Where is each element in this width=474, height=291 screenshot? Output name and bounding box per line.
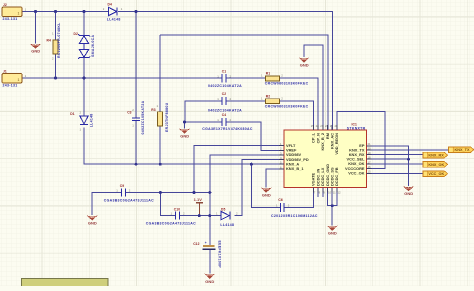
wire KNX_A long row y164.2 from D1 bottom to IC bbox=[84, 127, 284, 164]
wire R3 bottom to KNX_A row bbox=[159, 126, 161, 164]
svg-text:VDD_REGN: VDD_REGN bbox=[334, 133, 339, 155]
svg-text:J2: J2 bbox=[3, 3, 7, 7]
capacitor C6 bbox=[280, 203, 284, 212]
node row1 GND tap bbox=[34, 10, 37, 13]
svg-text:24: 24 bbox=[316, 124, 320, 128]
port flag KNX_RX bbox=[423, 152, 448, 158]
wire R3 hang from row3 bbox=[159, 35, 161, 112]
node VCC_SEL EP gnd tap bbox=[407, 158, 410, 161]
wire net KNX- row2 from J1 through R4/D2 bottoms to C1 bbox=[22, 77, 222, 79]
capacitor C12 polarized bbox=[193, 241, 221, 269]
node row1 D2 tap bbox=[83, 10, 86, 13]
wire 1.1V row C10 right to D5 anode bbox=[180, 215, 221, 217]
node DCDC gnd merge bbox=[331, 204, 334, 207]
wire KNX_TX pin to flag bbox=[367, 149, 449, 151]
svg-text:243-131: 243-131 bbox=[3, 17, 18, 21]
node C4 GND tap bbox=[183, 121, 186, 124]
IC pin stubs bbox=[279, 125, 371, 192]
svg-text:D5: D5 bbox=[221, 207, 225, 211]
node KNX_A R3 tap bbox=[159, 163, 162, 166]
IC IC1 STKNX body bbox=[284, 122, 367, 187]
svg-text:C4: C4 bbox=[222, 113, 226, 117]
svg-text:C1: C1 bbox=[222, 69, 226, 73]
svg-text:0402ZC104KAT2A: 0402ZC104KAT2A bbox=[208, 108, 242, 112]
svg-text:STKNXTR: STKNXTR bbox=[347, 126, 366, 130]
svg-text:R1: R1 bbox=[266, 71, 270, 75]
wire VDD98V_PD pin to vertical x242 down to D5 cathode bbox=[234, 160, 284, 216]
IC top pin names vertical bbox=[311, 132, 340, 154]
svg-text:GND: GND bbox=[88, 220, 97, 225]
svg-text:CRCW0603103K0FKEC: CRCW0603103K0FKEC bbox=[265, 81, 309, 85]
wire R2 right to IC top pin, corner x313 bbox=[280, 101, 314, 130]
svg-text:CGA3B3C0G2A473J111AC: CGA3B3C0G2A473J111AC bbox=[104, 199, 154, 203]
wire 1.1V power flag stem bbox=[198, 203, 200, 216]
wire VCC_OK pin to flag bbox=[367, 172, 424, 174]
capacitor C4 bbox=[222, 118, 226, 126]
node 1.1V flag tap bbox=[198, 214, 201, 217]
wire VFLT pin to vertical x194 down to C9 row bbox=[194, 146, 284, 193]
wire DCDC_IN stub bbox=[317, 188, 319, 198]
connector J1 bbox=[2, 69, 27, 87]
ground symbol GND6 bbox=[327, 226, 338, 236]
IC right pin names bbox=[345, 143, 365, 176]
wire C9 left leg to GND5 bbox=[92, 193, 121, 216]
wire C6 left from KNX_A junction x251.4 bbox=[251, 164, 280, 207]
port flag VCC_OK bbox=[423, 171, 448, 177]
svg-text:1: 1 bbox=[18, 12, 20, 16]
wire R4 bottom to row2 bbox=[55, 54, 57, 78]
power flag 1.1V bbox=[194, 197, 203, 203]
wire DCDC_GND / SS / FB merge to GND6 bbox=[328, 188, 337, 226]
TVS diode D2 bbox=[78, 34, 90, 59]
ground symbol GND2 bbox=[299, 57, 310, 67]
wire GND2 stem run y45 to IC top pin, corner x322.7 bbox=[304, 45, 323, 130]
wire EP pin to GND8 drop x408.5 bbox=[367, 146, 409, 186]
wire C12 top from 1.1V row bbox=[209, 216, 211, 245]
ground symbol GND7 bbox=[204, 274, 215, 285]
capacitor C3 bbox=[132, 118, 140, 121]
capacitor C1 bbox=[222, 74, 226, 82]
svg-text:KNX_RX: KNX_RX bbox=[428, 154, 444, 158]
wire C3 bottom to KNX_A row bbox=[135, 121, 137, 164]
svg-text:VCC_OK: VCC_OK bbox=[348, 171, 364, 176]
title block edge bottom left bbox=[22, 279, 109, 288]
wire C10 left leg from C9 junction x160.4 bbox=[160, 193, 175, 216]
wire D1 top from row2 bbox=[83, 78, 85, 116]
svg-text:CGA3E1X7R1V474K080AC: CGA3E1X7R1V474K080AC bbox=[202, 127, 253, 131]
svg-text:RC1206FR-0748KL: RC1206FR-0748KL bbox=[57, 22, 61, 58]
svg-text:GND: GND bbox=[300, 62, 309, 67]
wire TVS D2 bottom to row2 bbox=[83, 58, 85, 78]
svg-text:GND: GND bbox=[262, 192, 271, 197]
svg-text:+: + bbox=[205, 241, 207, 245]
node row1 R4 tap bbox=[54, 10, 57, 13]
diode D5 bbox=[221, 212, 230, 220]
IC pin numbers bottom bbox=[314, 190, 341, 194]
svg-text:VCC_OK: VCC_OK bbox=[428, 172, 444, 176]
connector J2 bbox=[2, 3, 27, 21]
svg-text:1.1V: 1.1V bbox=[194, 197, 203, 202]
node row2 D2 tap bbox=[83, 77, 86, 80]
resistor R4 bbox=[47, 22, 62, 61]
svg-text:CRCW0603103K0FKEC: CRCW0603103K0FKEC bbox=[265, 104, 309, 108]
svg-text:11: 11 bbox=[333, 190, 336, 194]
wire net KNX+ row1 from J2 to D4 bbox=[22, 11, 108, 13]
resistor R2 bbox=[261, 94, 309, 108]
diode D4 bbox=[109, 7, 118, 15]
svg-text:LL4148: LL4148 bbox=[220, 223, 234, 227]
capacitor C10 bbox=[176, 212, 180, 220]
IC left pin names bbox=[286, 143, 309, 171]
wire KNX_RX pin to flag bbox=[367, 154, 424, 156]
wire C2 left leg down to C4/GND row bbox=[185, 101, 222, 122]
port flag KNX_TX bbox=[449, 147, 474, 153]
svg-text:12: 12 bbox=[338, 190, 342, 194]
svg-text:R2: R2 bbox=[266, 94, 270, 98]
svg-text:C12: C12 bbox=[193, 242, 199, 246]
node row2 R4 tap bbox=[54, 77, 57, 80]
wire row1 junction to C3 top bbox=[135, 12, 137, 118]
svg-text:243-131: 243-131 bbox=[3, 84, 18, 88]
svg-text:LL4148: LL4148 bbox=[89, 113, 93, 127]
svg-text:D4: D4 bbox=[108, 2, 112, 6]
ground symbol GND5 bbox=[87, 215, 98, 225]
wire C1 right to R1 left bbox=[226, 77, 265, 79]
node C9 row VDD tap bbox=[208, 191, 211, 194]
svg-text:0402ZC104KAT2A: 0402ZC104KAT2A bbox=[208, 84, 242, 88]
wire row1 to TVS D2 top bbox=[83, 12, 85, 36]
wire C6 right to VGATE bottom pin x313 bbox=[284, 188, 313, 208]
wire C4 right to IC pin VREF via corner x261 bbox=[226, 122, 284, 150]
node C9 row VFLT tap bbox=[193, 191, 196, 194]
svg-text:22: 22 bbox=[325, 124, 329, 128]
wire top pin6 VDD_REG loop to VCCCORE pin bbox=[337, 112, 385, 169]
wire C9 right run y192.5 to corner x209.8 bbox=[126, 192, 210, 194]
wire KNX_OK pin to flag bbox=[367, 163, 424, 165]
port flag KNX_OK bbox=[423, 162, 448, 168]
node KNX_A C3 tap bbox=[135, 163, 138, 166]
svg-text:CGA3B3C0G2A473J111AC: CGA3B3C0G2A473J111AC bbox=[146, 222, 196, 226]
ground symbol GND3 bbox=[179, 129, 190, 139]
wire VCC_SEL pin to GND drop bbox=[367, 158, 409, 160]
IC pin numbers right bbox=[368, 142, 372, 174]
capacitor C2 bbox=[222, 97, 226, 105]
ground symbol GND1 bbox=[30, 44, 41, 54]
wire VDD98V pin to vertical x209.8 down to 1.1V row bbox=[210, 155, 284, 216]
node C9 row C10 tap bbox=[159, 191, 162, 194]
diode D1 bbox=[80, 116, 88, 125]
node KNX_A C6 tap bbox=[250, 163, 253, 166]
svg-text:C3: C3 bbox=[127, 110, 131, 114]
wire KNX_B_1 pin to GND4 bbox=[266, 169, 284, 187]
wire GND3 stem and C4 left bbox=[185, 122, 223, 128]
svg-text:LL4148: LL4148 bbox=[107, 18, 121, 22]
node row1 C3 tap bbox=[135, 10, 138, 13]
svg-text:C10: C10 bbox=[174, 207, 180, 211]
svg-text:DCDC_FB: DCDC_FB bbox=[334, 167, 339, 186]
svg-text:D1: D1 bbox=[70, 112, 74, 116]
svg-text:R3: R3 bbox=[151, 108, 155, 112]
svg-text:D2: D2 bbox=[74, 32, 78, 36]
svg-text:0402ZC105KAT2A: 0402ZC105KAT2A bbox=[141, 100, 145, 134]
svg-text:SMAJ6.0CA: SMAJ6.0CA bbox=[91, 34, 95, 57]
svg-text:GND: GND bbox=[404, 191, 413, 196]
svg-text:GND: GND bbox=[31, 49, 40, 54]
svg-text:C2: C2 bbox=[222, 92, 226, 96]
wire GND drop from row1 to GND1 bbox=[35, 12, 37, 44]
svg-text:R4: R4 bbox=[47, 39, 51, 43]
wire C12 bottom to GND7 bbox=[209, 250, 211, 274]
IC pin numbers left bbox=[280, 142, 282, 169]
wire R1 right to IC top pin, corner x318 bbox=[280, 78, 319, 130]
svg-text:C2012X5R1C106M112AC: C2012X5R1C106M112AC bbox=[271, 214, 318, 218]
ground symbol GND8 bbox=[403, 186, 414, 196]
svg-text:EEEFK1V100P: EEEFK1V100P bbox=[217, 241, 221, 269]
wire DCDC_LX stub bbox=[322, 188, 324, 198]
resistor R1 bbox=[261, 71, 309, 85]
svg-text:ERJ3TNF8880U: ERJ3TNF8880U bbox=[165, 102, 169, 132]
svg-text:C6: C6 bbox=[278, 198, 282, 202]
svg-text:GND: GND bbox=[205, 279, 214, 284]
svg-text:GND: GND bbox=[180, 134, 189, 139]
svg-text:1: 1 bbox=[18, 78, 20, 82]
svg-text:KNX_B_1: KNX_B_1 bbox=[286, 166, 304, 171]
capacitor C9 bbox=[121, 189, 125, 197]
svg-text:C9: C9 bbox=[120, 184, 124, 188]
svg-text:20: 20 bbox=[335, 124, 339, 128]
node 1.1V C12 tap bbox=[208, 214, 211, 217]
svg-text:J1: J1 bbox=[3, 69, 7, 73]
resistor R3 bbox=[151, 102, 169, 132]
IC bottom pin names vertical bbox=[311, 164, 340, 186]
svg-text:21: 21 bbox=[330, 124, 334, 128]
wire C2 right to R2 left bbox=[226, 100, 265, 102]
wire row1 to R4 top bbox=[55, 12, 57, 41]
svg-text:23: 23 bbox=[320, 124, 324, 128]
wire net KNX+ row1 from D4 to IC pin CP top, corner at x332 bbox=[118, 12, 333, 131]
svg-text:KNX_TX: KNX_TX bbox=[455, 148, 470, 152]
svg-text:10: 10 bbox=[328, 190, 332, 194]
svg-text:GND: GND bbox=[328, 231, 337, 236]
wire row3 R3 top run y35 to IC top pin, corner x328 bbox=[160, 35, 328, 130]
ground symbol GND4 bbox=[261, 188, 272, 198]
IC pin numbers top bbox=[311, 124, 338, 128]
svg-text:KNX_OK: KNX_OK bbox=[428, 163, 444, 167]
